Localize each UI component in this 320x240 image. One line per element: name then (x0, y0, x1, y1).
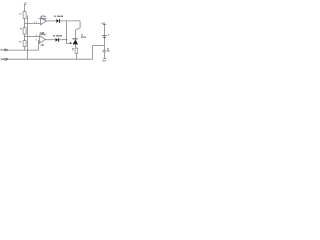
wire V+ to R1 (24, 5, 26, 12)
LED D3 (102, 34, 109, 38)
wire LED to cap (104, 38, 106, 50)
diode D1 (56, 19, 60, 23)
svg-text:5: 5 (36, 39, 37, 41)
wire right V+ down (104, 25, 106, 36)
wire R1 to R2 (24, 18, 26, 27)
svg-text:IN1: IN1 (1, 49, 5, 51)
svg-text:3: 3 (36, 22, 37, 24)
labels maroon (19, 3, 106, 63)
junction dot D2 node (66, 39, 67, 40)
svg-text:10u: 10u (107, 51, 110, 53)
svg-text:R1: R1 (19, 13, 21, 15)
svg-text:R2: R2 (20, 29, 22, 31)
wire tap1 to opamp1 lower input (25, 23, 41, 25)
op-amp IC1A (41, 17, 47, 25)
junction dot R3 input1 (24, 50, 25, 51)
wire R4 to gnd rail (75, 53, 77, 59)
wire input2 rail (8, 58, 93, 60)
svg-text:D1 1N4148: D1 1N4148 (54, 15, 63, 18)
wire junction branch left and down to rail (93, 46, 105, 60)
wire D1 cathode to corner (60, 20, 80, 22)
svg-text:BT169: BT169 (81, 37, 86, 39)
wire R3 to input1 wire (24, 46, 26, 50)
power +12V right bar (103, 24, 106, 26)
svg-text:R3: R3 (19, 41, 21, 43)
op-amp IC1B (39, 35, 45, 43)
resistor R4 (75, 48, 78, 53)
svg-text:+12V: +12V (24, 3, 29, 5)
junction dot input1 vertical (27, 50, 28, 51)
wire thyristor cathode to R4 (75, 44, 78, 48)
resistor R1 (23, 12, 26, 19)
svg-text:IN2: IN2 (1, 59, 5, 61)
wire opamp2 power stub (42, 43, 44, 45)
connector X2 (5, 58, 9, 60)
resistor R2 (23, 28, 26, 34)
svg-text:2: 2 (34, 22, 35, 24)
wire vertical mid (27, 16, 29, 60)
wire opamp1 upper input stub (38, 18, 40, 20)
svg-text:6: 6 (36, 35, 37, 37)
wire C2 to ground (104, 52, 106, 58)
wire input1 (8, 49, 39, 51)
thyristor T1 (73, 39, 79, 45)
wire opamp2 lower input to input1 (38, 41, 41, 51)
svg-text:D2 1N4148: D2 1N4148 (53, 34, 62, 37)
power +12V left bar (24, 4, 26, 6)
junction dot tap1 crossing (27, 23, 28, 24)
wire corner down to thyristor anode (76, 21, 81, 39)
resistor R3 (23, 41, 26, 47)
svg-text:1k: 1k (72, 50, 74, 52)
wire D1 node down to gate (67, 21, 73, 44)
ground symbol (103, 58, 106, 60)
labels dark (1, 15, 110, 61)
capacitor C2 plates (103, 50, 107, 52)
svg-text:GND: GND (102, 60, 106, 62)
diode D2 (56, 38, 60, 42)
svg-text:GND: GND (40, 45, 45, 47)
wire R2 to R3 (24, 34, 26, 41)
wire tap2 to opamp2 upper input (25, 36, 40, 38)
connector X1 (4, 49, 8, 51)
wire D2 cathode to node (59, 39, 67, 41)
wire opamp1 output (46, 20, 56, 22)
wire opamp2 output (45, 39, 55, 41)
junction dot gate (70, 42, 72, 44)
